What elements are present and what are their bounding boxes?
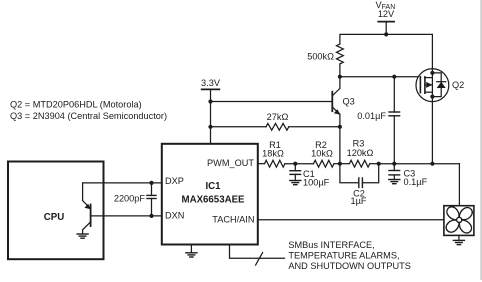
svg-text:500kΩ: 500kΩ [307,52,334,62]
svg-text:DXP: DXP [165,176,184,186]
wire to fan top [458,164,460,206]
capacitor C2 1uF (parallel with R3) [340,164,379,207]
svg-text:TEMPERATURE ALARMS,: TEMPERATURE ALARMS, [288,251,399,261]
svg-text:1µF: 1µF [350,196,366,206]
svg-text:Q2: Q2 [452,80,464,90]
resistor 27kOhm [211,112,343,130]
svg-text:DXN: DXN [165,210,184,220]
capacitor C3 0.1uF [389,164,428,187]
svg-text:Q2 = MTD20P06HDL (Motorola): Q2 = MTD20P06HDL (Motorola) [10,100,142,110]
svg-text:0.1µF: 0.1µF [404,177,428,187]
svg-text:Q3: Q3 [343,97,355,107]
supply 3.3V [201,78,221,144]
ground (IC1) [186,245,197,258]
ground (C3) [389,180,400,184]
svg-text:12V: 12V [378,9,395,19]
transistor Q3 NPN 2N3904 [332,77,354,164]
svg-text:AND SHUTDOWN OUTPUTS: AND SHUTDOWN OUTPUTS [288,261,411,271]
resistor R1 18kOhm [262,140,285,167]
node C3 junction [392,162,396,166]
capacitor 0.01uF [357,77,399,164]
svg-text:100µF: 100µF [303,178,330,188]
transistor thermal diode in CPU [83,183,162,234]
wire Q2 drain down [431,102,433,164]
svg-text:PWM_OUT: PWM_OUT [207,158,254,168]
wire node B to fan drop [379,163,460,165]
wire 500k to gate node [339,64,341,77]
ground (C1) [290,181,301,185]
wire PWM_OUT pin [258,163,265,165]
svg-text:120kΩ: 120kΩ [347,148,374,158]
svg-text:18kΩ: 18kΩ [262,149,284,159]
svg-text:SMBus INTERFACE,: SMBus INTERFACE, [288,240,374,250]
node R3 right [377,162,381,166]
wire R2 to node B [334,163,340,165]
svg-text:Q3 = 2N3904 (Central Semicondu: Q3 = 2N3904 (Central Semiconductor) [10,111,167,121]
wire SMBus bus [230,245,285,266]
svg-text:MAX6653AEE: MAX6653AEE [182,195,246,206]
svg-text:TACH/AIN: TACH/AIN [212,214,254,224]
note Q2/Q3 part numbers [10,100,167,122]
svg-text:3.3V: 3.3V [201,78,221,88]
resistor 500kOhm [307,44,343,64]
CPU box [8,162,104,260]
node B (R2/R3/Q3 emitter) [338,162,342,166]
resistor R3 120kOhm [340,139,379,167]
node Q2 drain junction [430,162,434,166]
resistor R2 10kOhm [311,140,334,167]
svg-text:10kΩ: 10kΩ [311,149,333,159]
wire 12V rail [340,34,433,68]
note SMBus interface text [288,240,411,271]
node C1 junction [293,162,297,166]
node Q3 collector / gate drive [338,75,342,79]
svg-text:0.01µF: 0.01µF [357,111,386,121]
node 0.01uF top junction [392,75,396,79]
svg-text:CPU: CPU [44,212,64,223]
ground (fan) [453,235,464,244]
svg-text:IC1: IC1 [205,181,221,192]
svg-text:2200pF: 2200pF [114,193,146,203]
fan [444,206,474,236]
wire R1 to R2 [285,163,314,165]
ground (CPU transistor) [77,234,88,238]
supply V_FAN 12V [376,0,396,34]
capacitor C1 100uF [290,164,330,188]
node 12V rail junction [384,32,388,36]
IC U1 MAX6653AEE [162,144,258,245]
capacitor 2200pF [114,181,156,218]
wire TACH/AIN to fan [258,219,444,221]
transistor Q2 P-channel MOSFET [416,69,464,102]
wire gate line [340,76,421,78]
wire Q3 base line [211,101,333,103]
svg-text:27kΩ: 27kΩ [267,112,289,122]
